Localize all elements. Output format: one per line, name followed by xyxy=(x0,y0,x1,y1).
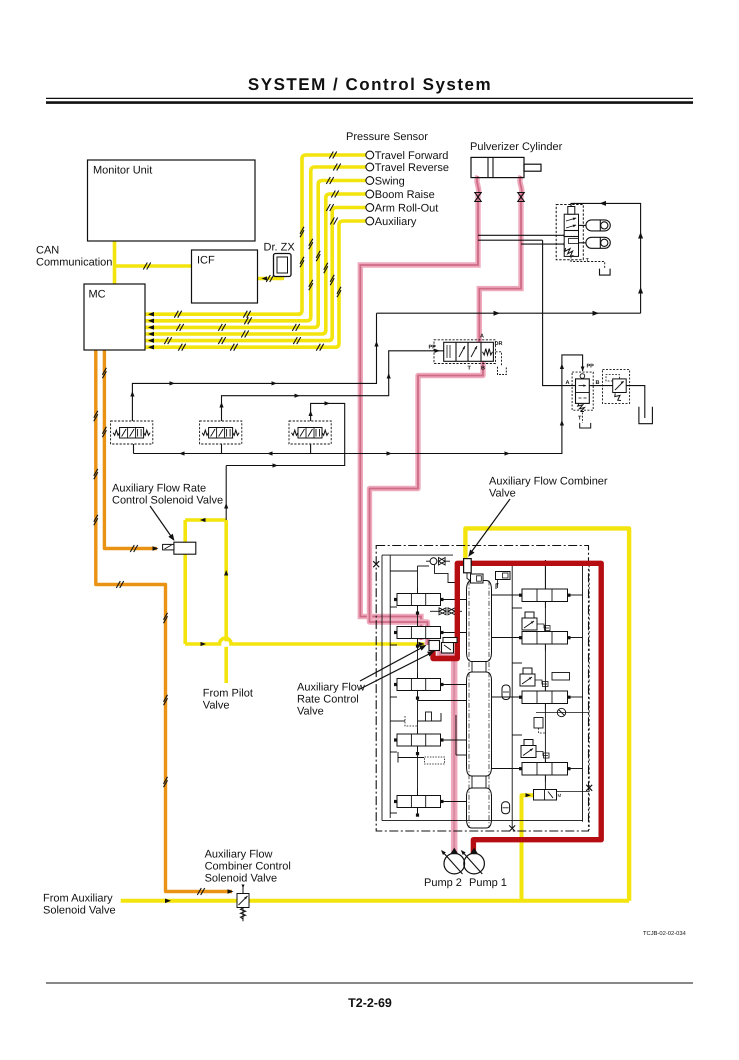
box ICF xyxy=(192,250,258,303)
orifice symbol right xyxy=(557,708,565,716)
wire yellow solenoid valve loop xyxy=(183,520,187,644)
pilot compensator 1 xyxy=(522,618,537,630)
block right spool valve 2 xyxy=(522,632,568,645)
svg-text:B: B xyxy=(481,366,485,372)
wire pulverizer cylinder port lines xyxy=(478,234,565,236)
svg-text:Pump 2: Pump 2 xyxy=(424,877,462,889)
svg-text:Valve: Valve xyxy=(297,706,324,718)
svg-text:M: M xyxy=(558,793,562,798)
aux flow combiner control solenoid valve xyxy=(242,886,244,922)
svg-text:Monitor Unit: Monitor Unit xyxy=(93,165,152,177)
pilot line slash marks orange xyxy=(102,368,106,375)
aux flow combiner valve (block top) xyxy=(464,559,472,573)
svg-text:A: A xyxy=(566,380,570,386)
pilot compensator 2 xyxy=(520,674,535,686)
pressure sensor circle Travel Forward xyxy=(366,151,374,159)
arrow into ICF from Dr.ZX xyxy=(262,276,268,280)
pilot solenoid valve 2 xyxy=(200,421,242,444)
svg-text:Pulverizer Cylinder: Pulverizer Cylinder xyxy=(470,141,563,153)
relief valve beside Q xyxy=(603,370,630,404)
accumulator charge valve xyxy=(556,205,583,260)
svg-text:Boom Raise: Boom Raise xyxy=(375,189,435,201)
wire solenoid valve 1 branch xyxy=(132,313,376,421)
arrow on bottom yellow bus xyxy=(165,899,171,904)
block small dotted boxes xyxy=(425,757,445,764)
svg-text:PP: PP xyxy=(587,364,595,370)
block inner frame lines xyxy=(382,554,453,556)
block right spool valve 4 xyxy=(522,763,568,776)
svg-text:Rate Control: Rate Control xyxy=(297,694,359,706)
pump 1 xyxy=(462,851,483,874)
accumulator 2 xyxy=(586,237,610,248)
svg-text:Travel Reverse: Travel Reverse xyxy=(375,162,449,174)
block left spool valve 4 xyxy=(397,734,441,746)
pilot solenoid valve 3 xyxy=(289,421,331,444)
svg-text:A: A xyxy=(480,334,484,340)
svg-text:Communication: Communication xyxy=(36,257,112,269)
closed port X marks xyxy=(586,785,592,791)
wire yellow pressure sensor Auxiliary to MC xyxy=(145,221,366,347)
svg-text:Auxiliary Flow Combiner: Auxiliary Flow Combiner xyxy=(489,476,608,488)
svg-text:Auxiliary Flow Rate: Auxiliary Flow Rate xyxy=(112,483,206,495)
box Dr. ZX connector xyxy=(274,254,292,277)
block top check valve with orifice xyxy=(430,558,437,565)
block right spool valve 1 xyxy=(522,589,568,602)
wire yellow pressure sensor Boom Raise to MC xyxy=(145,194,366,334)
block left spool valve 5 xyxy=(397,796,441,808)
pressure sensor circle Arm Roll-Out xyxy=(366,204,374,212)
wire yellow pressure sensor Arm Roll-Out to MC xyxy=(145,208,366,341)
wire yellow monitor unit to CAN junction xyxy=(113,241,117,284)
svg-text:From Auxiliary: From Auxiliary xyxy=(43,893,113,905)
svg-text:Solenoid Valve: Solenoid Valve xyxy=(43,905,116,917)
wire solenoid valve 3 branch xyxy=(311,403,345,453)
small component above capsule 1 xyxy=(471,574,484,583)
svg-text:TCJB-02-02-034: TCJB-02-02-034 xyxy=(643,930,687,937)
block left spool valve 3 xyxy=(397,679,441,691)
box Monitor Unit xyxy=(88,160,256,241)
svg-text:B: B xyxy=(596,380,600,386)
wire pilot bus top horizontal y313 xyxy=(377,312,641,314)
wire pink pulverizer cylinder rod-side line xyxy=(360,176,479,640)
block internal connector lines xyxy=(390,570,417,572)
svg-text:SYSTEM / Control System: SYSTEM / Control System xyxy=(248,75,492,94)
svg-text:CAN: CAN xyxy=(36,245,59,257)
svg-text:MC: MC xyxy=(89,289,106,301)
svg-text:Pump 1: Pump 1 xyxy=(469,877,507,889)
pressure sensor circle Swing xyxy=(366,177,374,185)
wire orange MC to aux flow rate control solenoid valve xyxy=(104,350,157,549)
pressure sensor circle Auxiliary xyxy=(366,217,374,225)
wire yellow bottom bus from auxiliary solenoid valve xyxy=(121,899,629,903)
pressure sensor circle Boom Raise xyxy=(366,190,374,198)
small dashed component xyxy=(534,718,543,729)
wire yellow pump 1 delivery inside block xyxy=(522,795,534,901)
wire yellow from pilot valve stub xyxy=(224,647,228,683)
flow rate valve Q xyxy=(572,372,593,410)
wire dark red pump 1 main delivery path xyxy=(433,563,601,854)
pilot compensator 3 xyxy=(521,746,536,758)
box MC xyxy=(84,284,145,350)
wire pink pulverizer cylinder head-side line xyxy=(479,176,522,343)
pump 2 xyxy=(442,851,463,874)
svg-text:Auxiliary: Auxiliary xyxy=(375,216,417,228)
svg-text:Valve: Valve xyxy=(489,488,516,500)
arrows into MC xyxy=(148,312,154,317)
block left spool valve 2 xyxy=(397,627,441,639)
svg-text:Travel Forward: Travel Forward xyxy=(375,150,449,162)
wire yellow CAN junction to ICF xyxy=(115,264,192,268)
svg-text:Solenoid Valve: Solenoid Valve xyxy=(205,873,278,885)
arrows on solenoid loop xyxy=(200,518,206,522)
wire yellow pressure sensor Travel Forward to MC xyxy=(145,155,366,314)
wire yellow pressure sensor Swing to MC xyxy=(145,181,366,328)
pilot line slash marks yellow xyxy=(329,152,333,159)
svg-text:Combiner Control: Combiner Control xyxy=(205,861,291,873)
main spool passage capsule 3 xyxy=(467,788,492,828)
label auxiliary flow rate control valve xyxy=(294,677,364,719)
wire yellow big loop block to bottom xyxy=(465,528,629,900)
wire right riser to accumulator valve xyxy=(571,203,641,313)
wire A-port feed from top bus xyxy=(543,240,576,385)
main spool passage capsule 2 xyxy=(467,672,492,776)
svg-text:DR: DR xyxy=(495,341,503,347)
block yellow metering valve xyxy=(534,790,557,801)
valve Q spring and tank xyxy=(578,403,585,411)
wire branch to pilot-valve feed xyxy=(226,454,345,466)
svg-text:T: T xyxy=(586,258,589,264)
svg-text:Dr. ZX: Dr. ZX xyxy=(264,242,296,254)
accumulator valve drain to tank xyxy=(571,256,605,268)
control valve block dash-dot border xyxy=(376,546,588,832)
pilot operated directional valve PP/A/B/T/DR xyxy=(434,340,496,364)
block left spool valve 1 xyxy=(397,594,441,606)
accumulator connect lines xyxy=(579,224,586,226)
pressure sensor circle Travel Reverse xyxy=(366,163,374,171)
arrow into yellow block valve xyxy=(526,793,532,797)
svg-text:PP: PP xyxy=(429,345,437,351)
footer rule xyxy=(46,982,693,984)
wire pink pump 2 delivery line xyxy=(440,651,454,854)
svg-text:T2-2-69: T2-2-69 xyxy=(348,996,392,1010)
double check fitting xyxy=(439,608,446,615)
accumulator 1 xyxy=(586,220,610,231)
aux flow rate control solenoid valve xyxy=(174,542,196,554)
aux flow rate control valve (in block) xyxy=(429,641,440,651)
arrows on orange lines xyxy=(153,546,159,551)
hose joint marks on cylinder lines xyxy=(475,193,481,202)
wire yellow ICF to Dr.ZX xyxy=(258,275,283,279)
DR drain dashed to tank xyxy=(496,352,502,367)
wire solenoid valve 2 branch xyxy=(222,351,444,421)
block right spool valve 3 xyxy=(522,691,568,704)
wire B-port out to tank xyxy=(589,386,645,418)
svg-text:Valve: Valve xyxy=(203,700,230,712)
svg-text:Pressure Sensor: Pressure Sensor xyxy=(346,131,428,143)
svg-text:Auxiliary Flow: Auxiliary Flow xyxy=(205,849,273,861)
wire main pilot return bus y453 xyxy=(134,453,563,455)
wire riser to flow valve Q PP loop xyxy=(562,355,583,454)
pilot solenoid valve 1 xyxy=(111,421,153,444)
wire yellow pressure sensor Travel Reverse to MC xyxy=(145,167,366,321)
svg-text:Arm Roll-Out: Arm Roll-Out xyxy=(375,202,439,214)
svg-text:From Pilot: From Pilot xyxy=(203,688,253,700)
svg-text:Auxiliary Flow: Auxiliary Flow xyxy=(297,682,365,694)
header double rule xyxy=(46,97,693,99)
wire orange MC to aux flow combiner control solenoid valve xyxy=(96,350,232,892)
small accumulator symbols in block xyxy=(502,685,510,700)
svg-text:ICF: ICF xyxy=(197,255,215,267)
small box right xyxy=(552,673,570,681)
svg-text:Swing: Swing xyxy=(375,175,405,187)
wire yellow to aux flow rate control valve with hop xyxy=(185,638,424,644)
top small solenoid box xyxy=(496,572,511,580)
main spool passage capsule 1 xyxy=(467,581,492,662)
wire pink valve B to combiner block segment xyxy=(370,360,484,645)
svg-text:Control Solenoid Valve: Control Solenoid Valve xyxy=(112,495,223,507)
